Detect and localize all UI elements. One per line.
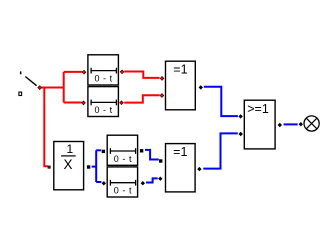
OR gate U3 body — [244, 100, 275, 149]
pin lamp Q1 input (low) — [299, 122, 303, 126]
wire OR U3 output to lamp Q1 — [284, 123, 298, 125]
switch S1 position-0 mark — [19, 92, 22, 95]
switch S1 lever — [25, 77, 36, 86]
pin XOR U1 output (low) — [199, 85, 203, 89]
pin timer T4 input (low) — [102, 181, 106, 185]
timer T2 body — [88, 87, 119, 117]
pin timer T3 input (low) — [102, 150, 105, 153]
XOR gate U2 body — [166, 144, 196, 192]
pin timer T2 output (high) — [119, 100, 124, 105]
pin OR U3 output (low) — [278, 123, 282, 127]
switch S1 position-1 mark — [20, 71, 22, 74]
svg-text:0 - t: 0 - t — [94, 73, 112, 83]
wire net A: vertical branch to timers — [63, 72, 65, 103]
timer T4 body — [107, 167, 137, 197]
pin timer T3 output (low) — [140, 149, 143, 152]
pin inverter U4 output (low) — [87, 165, 90, 168]
timer T3 body — [107, 135, 137, 165]
pin OR U3 input 2 (low) — [239, 132, 243, 136]
svg-text:0 - t: 0 - t — [114, 154, 132, 164]
wire inverter U4 output stub — [92, 166, 97, 168]
svg-text:=1: =1 — [173, 145, 187, 159]
wire T3 output to XOR U2 input 1 — [145, 150, 159, 160]
pin switch S1 output (high) — [37, 85, 42, 90]
wire T2 output to XOR U1 input 2 — [124, 95, 160, 102]
pin inverter U4 input (high) — [48, 166, 51, 169]
pin OR U3 input 1 (low) — [238, 114, 242, 118]
lamp Q1 body — [304, 116, 319, 131]
wire net A: branch to timer T2 input — [64, 102, 82, 104]
wire U4 branch vertical — [95, 150, 97, 182]
wire net A: drop to inverter U4 input — [44, 88, 48, 167]
pin timer T4 output (low) — [141, 181, 145, 185]
svg-text:>=1: >=1 — [247, 102, 269, 116]
wire U4 branch to timer T4 input — [96, 181, 101, 183]
wire net A: switch output to branch — [41, 87, 64, 89]
wire XOR U1 output to OR U3 input 1 — [204, 87, 238, 116]
pin XOR U2 input 1 (low) — [159, 159, 162, 162]
pin XOR U1 input 2 (high) — [160, 93, 165, 98]
pin timer T1 input (high) — [82, 70, 87, 75]
pin XOR U2 input 2 (low) — [158, 177, 162, 181]
pin XOR U1 input 1 (high) — [160, 76, 165, 81]
wire U4 branch to timer T3 input — [96, 149, 101, 151]
svg-text:1: 1 — [67, 142, 74, 156]
svg-text:=1: =1 — [173, 63, 187, 77]
wire net A: branch to timer T1 input — [64, 71, 83, 73]
XOR gate U1 body — [166, 61, 196, 110]
pin timer T1 output (high) — [120, 69, 125, 74]
pin timer T2 input (high) — [81, 101, 86, 106]
timer T1 body — [88, 55, 119, 85]
pin XOR U2 output (low) — [197, 167, 201, 171]
wire XOR U2 output to OR U3 input 2 — [203, 133, 238, 168]
wire T4 output to XOR U2 input 2 — [146, 178, 158, 182]
svg-text:0 - t: 0 - t — [94, 105, 112, 115]
svg-text:X: X — [63, 157, 72, 172]
wire T1 output to XOR U1 input 1 — [124, 72, 159, 78]
svg-text:0 - t: 0 - t — [114, 186, 132, 196]
inverter U4 body — [54, 142, 84, 190]
inverter U4 fraction bar — [61, 155, 76, 157]
